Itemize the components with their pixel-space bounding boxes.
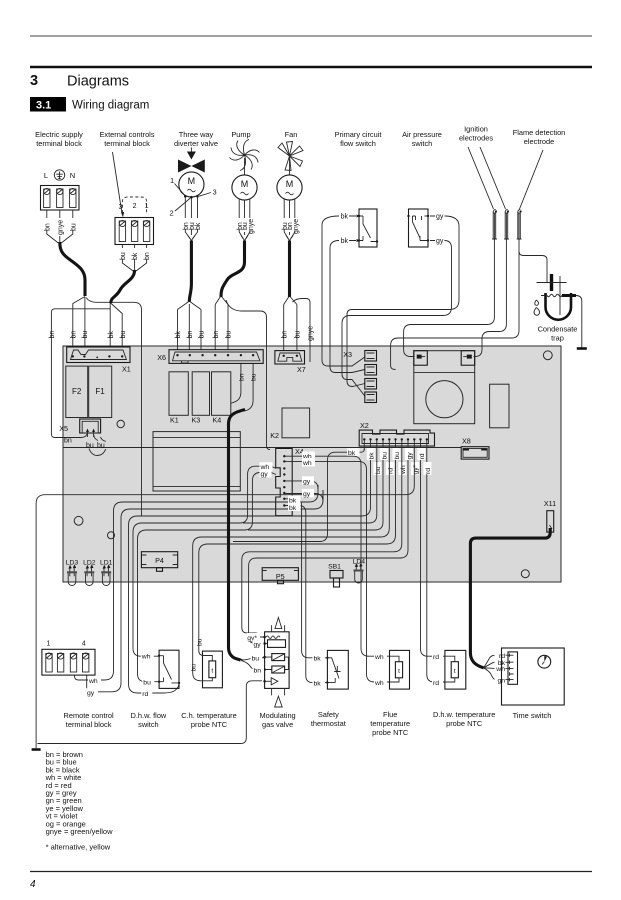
- label wh chip: [88, 677, 101, 685]
- ext block outline: [115, 218, 154, 245]
- connector X2: [359, 421, 434, 446]
- svg-text:M: M: [241, 179, 249, 189]
- wires converge: [47, 230, 73, 243]
- bn curl to pin1: [81, 434, 87, 438]
- svg-text:bu: bu: [199, 331, 206, 339]
- droplet big: [534, 308, 540, 316]
- bottom labels row: [64, 710, 552, 737]
- svg-text:External controls: External controls: [99, 130, 154, 139]
- mounting hole left mid: [74, 516, 83, 525]
- svg-text:SB1: SB1: [328, 564, 341, 571]
- svg-text:electrode: electrode: [524, 137, 554, 146]
- pump impeller: [230, 140, 260, 171]
- time switch thick cable from X11: [470, 528, 550, 668]
- wire bn branch to X5 via left side: [51, 309, 110, 438]
- svg-text:switch: switch: [138, 720, 159, 729]
- LED LD1: [100, 560, 113, 586]
- svg-text:bn: bn: [254, 667, 262, 674]
- svg-text:4: 4: [82, 641, 86, 648]
- svg-text:rd: rd: [142, 691, 148, 698]
- svg-text:F1: F1: [95, 387, 105, 396]
- fan motor M: [289, 158, 291, 175]
- bundle wire L9: [242, 461, 402, 637]
- svg-text:gy*: gy*: [413, 464, 420, 474]
- fan gnye wire: [293, 299, 311, 363]
- solenoid link bracket: [285, 657, 289, 669]
- inlet thick bar: [550, 274, 553, 291]
- valve funnel: [185, 229, 197, 239]
- contact dots: [407, 215, 409, 217]
- svg-text:* alternative, yellow: * alternative, yellow: [46, 843, 111, 852]
- svg-text:bu: bu: [190, 664, 197, 672]
- wire bu to X1: [84, 297, 86, 347]
- pump thick cable: [221, 241, 245, 298]
- svg-text:Flue: Flue: [383, 710, 397, 719]
- contact dots: [358, 215, 360, 217]
- connector X6: [157, 350, 263, 364]
- bottom port triangle: [275, 696, 283, 707]
- svg-text:Three way: Three way: [179, 130, 214, 139]
- valve bowtie: [178, 160, 205, 173]
- svg-text:bu: bu: [295, 331, 302, 339]
- time switch lead gn: [484, 668, 495, 680]
- svg-text:M: M: [188, 176, 196, 186]
- time switch: [495, 648, 564, 705]
- svg-text:LD2: LD2: [83, 560, 96, 567]
- supply thick cable: [60, 242, 85, 296]
- bundle wire L5 dhw wh: [243, 461, 377, 523]
- svg-text:M: M: [286, 179, 294, 189]
- switch blade: [359, 216, 377, 242]
- LED LD3: [66, 560, 79, 586]
- svg-text:X6: X6: [157, 353, 166, 362]
- gas valve bn lead: [242, 661, 265, 670]
- svg-text:wh: wh: [88, 678, 98, 685]
- coil bumps: [266, 636, 280, 639]
- svg-text:Wiring diagram: Wiring diagram: [72, 100, 149, 112]
- pin stubs: [265, 644, 272, 670]
- svg-text:Air pressure: Air pressure: [402, 130, 442, 139]
- valve wires down: [185, 198, 197, 219]
- svg-text:gnye: gnye: [293, 219, 300, 234]
- svg-text:L: L: [44, 171, 48, 180]
- fuse F2: [66, 366, 88, 417]
- svg-text:rd: rd: [388, 468, 395, 474]
- relay K3: [192, 372, 209, 416]
- X4 right gy1 wire: [285, 476, 318, 489]
- fan group: [277, 142, 315, 363]
- svg-text:Condensate: Condensate: [538, 325, 578, 334]
- flow switch wire upper: [322, 216, 365, 366]
- svg-text:bn: bn: [144, 252, 151, 260]
- gas valve bu lead: [241, 658, 265, 660]
- bundle wire L8 ch bu2: [199, 461, 396, 656]
- svg-text:wh: wh: [302, 460, 312, 467]
- wire stubs below: [122, 245, 146, 249]
- svg-text:diverter valve: diverter valve: [174, 139, 218, 148]
- flow switch box: [359, 209, 377, 247]
- legend pointer line to gas valve earth: [38, 681, 263, 744]
- svg-text:wh: wh: [495, 666, 505, 673]
- svg-text:wh: wh: [374, 680, 384, 687]
- svg-text:Fan: Fan: [285, 130, 298, 139]
- svg-text:K1: K1: [170, 416, 179, 425]
- svg-text:gnye: gnye: [57, 220, 64, 235]
- svg-text:LD1: LD1: [100, 560, 113, 567]
- overflow thick bar: [562, 294, 576, 297]
- svg-text:gy: gy: [436, 238, 444, 245]
- svg-text:Ignition: Ignition: [464, 125, 488, 134]
- valve cable funnel: [178, 302, 202, 310]
- air pressure switch group: [342, 209, 459, 396]
- button SB1: [328, 564, 343, 587]
- mounting hole top right: [543, 351, 552, 360]
- svg-text:flow switch: flow switch: [340, 139, 376, 148]
- connector X5: [59, 419, 106, 456]
- svg-text:F2: F2: [72, 387, 82, 396]
- svg-text:Electric supply: Electric supply: [35, 130, 83, 139]
- svg-text:bu: bu: [252, 656, 260, 663]
- arrow marks: [349, 216, 356, 241]
- fan thick cable: [288, 241, 291, 298]
- electrode 1 wire to igniter left clip: [404, 246, 495, 357]
- chip bu row2: [373, 462, 381, 475]
- 3.1 black box: [30, 97, 66, 112]
- svg-text:bk: bk: [132, 252, 139, 260]
- label gy chip: [86, 688, 98, 696]
- wires to X6: [178, 304, 202, 350]
- chip rd: [417, 448, 425, 460]
- bu bu loop: [94, 435, 106, 442]
- LED LD4: [353, 559, 366, 583]
- fan cable funnel: [284, 297, 297, 305]
- bundle wire L3 remote gy: [87, 490, 323, 692]
- modulating gas valve: [247, 618, 290, 708]
- svg-text:D.h.w. flow: D.h.w. flow: [131, 711, 167, 720]
- pointer lines: [468, 147, 506, 209]
- svg-text:2: 2: [170, 209, 174, 218]
- X5 pin arrows: [88, 431, 94, 437]
- long wire L1 to legend: [36, 461, 414, 748]
- svg-text:gy: gy: [436, 214, 444, 221]
- X4 right wh1 wire to flue: [285, 452, 390, 657]
- svg-text:LD4: LD4: [353, 559, 366, 566]
- LED LD2: [83, 560, 96, 586]
- chip gy* row2: [411, 462, 419, 475]
- svg-text:3: 3: [213, 188, 217, 197]
- flame electrode wire to earth hook: [391, 246, 519, 370]
- svg-text:bu: bu: [70, 223, 77, 231]
- svg-text:rd: rd: [419, 453, 426, 459]
- header thick rule: [30, 66, 592, 68]
- supply block outline: [41, 186, 80, 211]
- svg-text:bk: bk: [195, 222, 202, 230]
- fan funnel: [284, 229, 295, 239]
- svg-text:Flame detection: Flame detection: [513, 128, 566, 137]
- connector X4: [276, 447, 304, 516]
- mounting hole left mid small: [108, 532, 115, 539]
- svg-text:bn: bn: [44, 223, 51, 231]
- svg-text:C.h. temperature: C.h. temperature: [181, 711, 236, 720]
- pump cable funnel: [215, 297, 228, 305]
- legend block: [45, 750, 114, 852]
- svg-text:P4: P4: [155, 556, 164, 565]
- svg-text:probe NTC: probe NTC: [372, 728, 409, 737]
- terminal L: [44, 188, 50, 207]
- remote control terminal block: [42, 641, 101, 697]
- bundle wire L7 ch bu1: [193, 461, 390, 681]
- svg-text:bk: bk: [108, 331, 115, 339]
- coil box: [268, 640, 286, 648]
- electric supply terminal block group: [41, 170, 142, 516]
- svg-text:K3: K3: [192, 416, 201, 425]
- svg-text:bn: bn: [239, 373, 246, 381]
- wire L down: [46, 210, 48, 218]
- X4 left wh wire to gas valve: [133, 462, 276, 656]
- three way diverter valve group: [170, 148, 217, 351]
- svg-text:gy: gy: [87, 690, 95, 697]
- bundle wire L6 dhw bu: [248, 461, 383, 530]
- legend terminal bar: [32, 748, 41, 751]
- svg-text:N: N: [70, 171, 75, 180]
- chip bk: [367, 448, 375, 460]
- svg-text:X3: X3: [343, 350, 352, 359]
- svg-text:3: 3: [118, 204, 122, 211]
- flue temperature probe: [374, 650, 410, 689]
- svg-text:Diagrams: Diagrams: [67, 74, 129, 90]
- svg-text:gnye: gnye: [248, 219, 255, 234]
- long trace line across board: [64, 447, 462, 449]
- connector X1: [67, 347, 131, 374]
- terminal 2: [131, 220, 137, 241]
- mounting hole bottom right: [521, 570, 529, 578]
- pump wires down: [239, 199, 250, 218]
- electrode 2: [504, 210, 509, 246]
- terminal 3: [119, 220, 125, 241]
- main PCB board: [63, 346, 561, 582]
- switch internals: [413, 216, 429, 241]
- svg-text:probe NTC: probe NTC: [191, 720, 228, 729]
- igniter left clip: [414, 351, 428, 366]
- gas valve thick cable: [229, 410, 246, 661]
- wires to X6: [215, 305, 228, 351]
- bundle wire L4 dhw rd: [129, 461, 371, 693]
- time switch lead bk: [484, 662, 495, 668]
- u-tube: [546, 293, 572, 320]
- svg-text:X7: X7: [297, 365, 306, 374]
- relay K2: [282, 408, 310, 438]
- svg-text:bk: bk: [289, 505, 297, 512]
- svg-text:electrodes: electrodes: [459, 134, 493, 143]
- top crossbar: [537, 282, 567, 284]
- dhw probe rd wire 1: [421, 474, 445, 656]
- dhw flow switch: [141, 650, 180, 698]
- svg-text:bu: bu: [226, 331, 233, 339]
- svg-text:Primary circuit: Primary circuit: [335, 130, 382, 139]
- svg-text:bu: bu: [143, 680, 151, 687]
- potentiometer P5: [262, 568, 298, 581]
- svg-text:1: 1: [46, 641, 50, 648]
- component block right of igniter: [490, 384, 509, 428]
- pin stubs down from X2: [364, 440, 427, 475]
- svg-text:rd: rd: [425, 468, 432, 474]
- time switch lead rd: [484, 655, 495, 668]
- potentiometer P4: [141, 552, 177, 568]
- electrode 2 wire to igniter right clip: [474, 246, 507, 357]
- svg-text:wh: wh: [400, 465, 407, 475]
- svg-text:bn: bn: [70, 331, 77, 339]
- valve thick cable to X6: [189, 241, 191, 303]
- svg-text:gy: gy: [407, 452, 414, 460]
- svg-text:4: 4: [30, 879, 36, 890]
- top port triangle: [275, 618, 282, 629]
- svg-text:Safety: Safety: [318, 710, 339, 719]
- connector X3: [343, 350, 376, 403]
- svg-text:gn: gn: [497, 677, 505, 684]
- svg-text:bu: bu: [382, 452, 389, 460]
- wires converge: [122, 259, 146, 271]
- svg-text:3: 3: [30, 73, 38, 89]
- svg-text:3.1: 3.1: [36, 100, 51, 112]
- chip gy: [405, 448, 413, 460]
- dashed jumper arc over terminals: [122, 197, 146, 213]
- svg-text:bk: bk: [341, 238, 349, 245]
- flow switch wire lower: [330, 241, 365, 373]
- fan propeller: [278, 142, 303, 171]
- svg-text:1: 1: [145, 203, 149, 210]
- svg-text:X11: X11: [544, 499, 556, 508]
- svg-text:probe NTC: probe NTC: [446, 719, 483, 728]
- safety thermostat: [313, 650, 349, 689]
- X2 pin1 bk wire left: [233, 448, 364, 541]
- flame electrode: [517, 210, 522, 246]
- svg-text:Modulating: Modulating: [260, 711, 296, 720]
- dhw probe rd wire 2: [427, 474, 445, 682]
- svg-text:bu: bu: [120, 252, 127, 260]
- terminal 1: [143, 220, 149, 241]
- top port nubs: [272, 625, 285, 632]
- dhw temperature probe: [432, 650, 466, 689]
- terminal earth: [57, 188, 63, 207]
- time switch lead wh: [484, 667, 495, 670]
- svg-text:bu: bu: [82, 331, 89, 339]
- clock symbol: [538, 655, 551, 668]
- svg-text:bu: bu: [86, 443, 94, 450]
- wires to X7: [284, 305, 297, 351]
- X4 left gy wire to gas valve: [138, 469, 277, 682]
- wire N down: [72, 210, 74, 218]
- svg-text:X2: X2: [360, 421, 369, 430]
- ext thick cable: [111, 270, 135, 303]
- svg-text:trap: trap: [551, 334, 564, 343]
- svg-text:bn: bn: [187, 331, 194, 339]
- svg-text:bu: bu: [375, 466, 382, 474]
- chip wh row2: [398, 462, 406, 475]
- X2 pin wire labels row1 row2: [364, 440, 432, 475]
- igniter circle: [426, 381, 463, 418]
- ch temperature probe: [190, 638, 222, 688]
- svg-text:switch: switch: [412, 139, 433, 148]
- svg-text:Remote control: Remote control: [64, 711, 114, 720]
- svg-text:terminal block: terminal block: [104, 139, 150, 148]
- svg-text:K2: K2: [270, 431, 279, 440]
- valve motor M: [179, 172, 204, 197]
- pump gnye wire to X4 area: [226, 300, 270, 450]
- bundle wire L2 remote wh: [75, 485, 319, 680]
- inner pipe: [559, 276, 561, 315]
- svg-text:Pump: Pump: [231, 130, 250, 139]
- svg-text:thermostat: thermostat: [311, 719, 346, 728]
- header thin rule: [30, 35, 592, 37]
- flame branch to condensate trap: [519, 251, 547, 283]
- solenoid 1: [272, 654, 285, 661]
- igniter block body: [414, 351, 475, 424]
- svg-text:bu: bu: [196, 638, 203, 646]
- chip rd row2: [423, 462, 431, 475]
- svg-text:gy: gy: [303, 478, 311, 485]
- svg-text:X8: X8: [462, 437, 471, 446]
- svg-text:terminal block: terminal block: [66, 720, 112, 729]
- terminal N: [70, 188, 76, 207]
- top component labels: [35, 125, 565, 149]
- svg-text:bu: bu: [394, 452, 401, 460]
- bottom port nubs: [272, 688, 285, 695]
- svg-text:P5: P5: [276, 572, 285, 581]
- electrode 1: [492, 210, 497, 246]
- svg-text:gy: gy: [254, 641, 262, 648]
- svg-text:t: t: [398, 668, 400, 675]
- ignition electrodes group: [391, 147, 547, 369]
- X4 right wh2 wire to flue: [285, 458, 390, 682]
- svg-text:gy: gy: [303, 491, 311, 498]
- air switch wire upper going right then down then left to X3: [347, 216, 459, 387]
- svg-text:terminal block: terminal block: [36, 139, 82, 148]
- droplet small: [535, 300, 539, 305]
- chip bu: [380, 448, 388, 460]
- primary circuit flow switch group: [322, 209, 378, 373]
- fuse F1: [89, 366, 112, 417]
- chip rd row2: [386, 462, 394, 475]
- earth symbol: [54, 170, 64, 180]
- svg-text:bn: bn: [213, 331, 220, 339]
- svg-text:t: t: [454, 668, 456, 675]
- pump group: [213, 140, 270, 450]
- svg-text:X5: X5: [59, 424, 68, 433]
- X4 bk1 wire to safety: [285, 496, 327, 658]
- footer rule: [30, 871, 592, 873]
- solenoid 2: [272, 666, 285, 673]
- wire bu to X1: [111, 303, 123, 347]
- svg-text:bn: bn: [64, 438, 72, 445]
- svg-text:2: 2: [133, 203, 137, 210]
- valve arrow: [190, 148, 192, 153]
- X6 gas valve bu wire: [244, 364, 253, 412]
- svg-text:bk: bk: [314, 680, 322, 687]
- relay K4: [212, 372, 231, 416]
- svg-text:bu: bu: [97, 443, 105, 450]
- harness loom line: [86, 298, 142, 517]
- pointer line from label to block: [113, 152, 123, 214]
- svg-text:gnye = green/yellow: gnye = green/yellow: [46, 827, 114, 836]
- svg-text:Time switch: Time switch: [513, 711, 552, 720]
- wire bk to X1: [109, 302, 111, 347]
- svg-text:rd: rd: [433, 680, 439, 687]
- flame electrode pointer: [520, 150, 544, 209]
- pump motor M: [244, 158, 246, 175]
- svg-text:bk: bk: [314, 656, 322, 663]
- X6 gas valve bn wire: [231, 364, 241, 404]
- svg-text:rd: rd: [499, 653, 505, 660]
